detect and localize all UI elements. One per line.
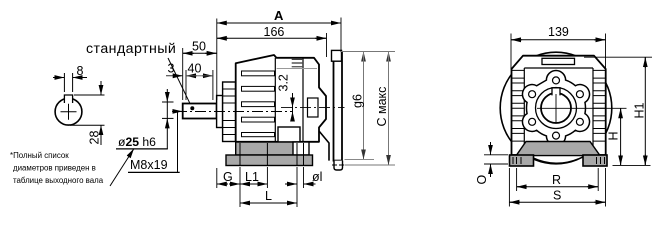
centerline motor axis xyxy=(281,106,345,108)
lower foot strip gray xyxy=(226,155,313,166)
dim H1 xyxy=(584,57,652,165)
dim O xyxy=(475,142,508,185)
foot bolt lines xyxy=(240,143,304,166)
dim 139 xyxy=(511,25,606,70)
dim R xyxy=(517,168,599,191)
dim 50 xyxy=(183,40,217,101)
gland ridged hub xyxy=(223,82,236,142)
svg-text:3: 3 xyxy=(168,62,175,76)
shaft housing step xyxy=(217,96,223,128)
output shaft xyxy=(183,104,217,119)
svg-text:M8x19: M8x19 xyxy=(130,158,168,172)
svg-text:G: G xyxy=(223,170,233,184)
keyway slot on shaft section xyxy=(64,95,72,103)
svg-text:8: 8 xyxy=(77,64,84,78)
svg-text:диаметров приведен в: диаметров приведен в xyxy=(13,164,96,173)
svg-text:L: L xyxy=(265,189,272,203)
dim L1 xyxy=(240,183,251,185)
spigot circle xyxy=(536,88,577,129)
centerline output axis xyxy=(176,111,292,113)
crosshair xyxy=(537,107,627,109)
oil box on body xyxy=(278,127,300,142)
flange bolt holes xyxy=(553,77,560,84)
dim H xyxy=(607,108,621,165)
svg-text:H1: H1 xyxy=(633,102,647,118)
svg-text:С макс: С макс xyxy=(375,87,389,127)
dim A xyxy=(217,8,341,100)
fin end panel vertical xyxy=(274,58,276,142)
note text xyxy=(10,149,134,187)
left foot block xyxy=(510,155,534,166)
svg-text:ø25 h6: ø25 h6 xyxy=(118,135,156,149)
svg-text:3.2: 3.2 xyxy=(277,74,291,91)
bell notch xyxy=(308,98,319,117)
svg-text:166: 166 xyxy=(264,25,285,39)
bottom dims G L1 L ol xyxy=(217,167,323,207)
svg-text:таблице выходного вала: таблице выходного вала xyxy=(13,176,104,185)
dim 8 keyway width xyxy=(53,64,87,92)
svg-text:40: 40 xyxy=(188,62,202,76)
svg-text:R: R xyxy=(552,173,561,187)
dim o25 on shaft: ext lines + outside arrows xyxy=(162,89,174,149)
front trapezoid foot xyxy=(516,142,600,156)
right fins xyxy=(593,70,606,141)
bell neck to flange foot xyxy=(319,131,329,161)
svg-text:L1: L1 xyxy=(245,170,259,184)
right foot block xyxy=(583,155,607,166)
dim g6 xyxy=(340,52,395,160)
dim ol xyxy=(285,183,297,185)
left fins xyxy=(512,70,525,141)
note leader xyxy=(110,149,134,187)
crosshair of shaft section xyxy=(61,104,77,120)
svg-text:50: 50 xyxy=(192,40,206,54)
svg-text:øl: øl xyxy=(312,170,322,184)
lobed flange xyxy=(522,71,589,146)
upper foot gray xyxy=(236,142,300,155)
bottom arc of motor circle xyxy=(534,158,579,163)
label o25 h6 xyxy=(116,135,168,149)
dim 28 xyxy=(70,81,105,145)
dim 40 xyxy=(186,62,213,101)
leader dot on shaft xyxy=(190,106,194,110)
housing octagon xyxy=(512,56,606,155)
svg-text:O: O xyxy=(475,175,489,185)
inner top edge line xyxy=(277,68,317,70)
svg-text:H: H xyxy=(607,131,621,140)
bore keyway xyxy=(552,88,560,96)
shaft section circle xyxy=(55,98,82,125)
svg-text:стандартный: стандартный xyxy=(86,41,176,57)
svg-text:A: A xyxy=(274,8,284,23)
svg-text:139: 139 xyxy=(548,25,569,39)
flange bottom lobe xyxy=(334,161,343,170)
leader standartny xyxy=(168,58,192,108)
inner face lines xyxy=(524,68,593,148)
svg-text:*Полный список: *Полный список xyxy=(10,151,69,160)
fin ends top right xyxy=(292,59,303,67)
body fins xyxy=(242,71,275,76)
svg-text:28: 28 xyxy=(88,131,102,145)
main body outline xyxy=(236,55,326,142)
dim 166 xyxy=(217,25,327,57)
white block right of upper foot xyxy=(293,142,309,155)
dim L xyxy=(240,202,251,204)
label M8x19 xyxy=(128,111,183,172)
svg-text:g6: g6 xyxy=(351,94,365,108)
nameplate xyxy=(542,58,575,64)
dim S xyxy=(509,168,605,207)
flange top lobe xyxy=(332,50,342,61)
flange plate xyxy=(334,53,343,161)
dim G xyxy=(217,183,228,185)
dim 3 xyxy=(166,62,186,101)
dim C max xyxy=(332,52,395,166)
dim 3.2 offset xyxy=(277,74,293,120)
svg-text:S: S xyxy=(553,189,561,203)
motor circle xyxy=(500,52,612,164)
bore circle xyxy=(541,93,571,123)
